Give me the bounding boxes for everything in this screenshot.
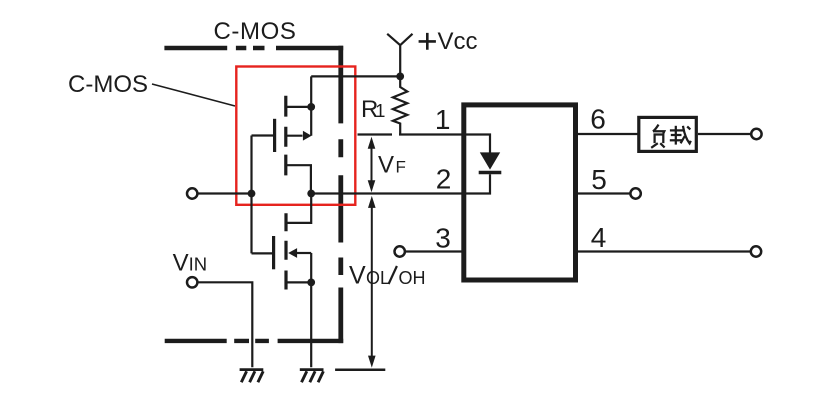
pin 5 terminal circle — [630, 188, 640, 198]
svg-text:C-MOS: C-MOS — [214, 18, 297, 45]
svg-text:C-MOS: C-MOS — [68, 71, 148, 98]
leader line from left C-MOS label to inverter — [152, 84, 235, 106]
wire pin 5 — [576, 192, 631, 194]
wire VIN terminal to ground — [198, 282, 253, 367]
Q1 source/body tie wire — [310, 76, 312, 135]
node Q1 source junction dot — [307, 103, 315, 111]
optocoupler U1 body — [464, 105, 576, 280]
input terminal circle — [187, 188, 197, 198]
wire pin 6 to load — [576, 133, 638, 135]
wire load to output terminal — [698, 133, 751, 135]
svg-text:R1: R1 — [361, 96, 385, 123]
node Vcc junction dot — [396, 73, 404, 81]
wire inverter output to pin 2 — [311, 192, 463, 194]
ground symbol (left) — [240, 370, 264, 383]
ground symbol (right) — [300, 370, 324, 383]
pin 3 terminal circle — [395, 246, 405, 256]
svg-text:4: 4 — [591, 222, 607, 253]
C-MOS package outline bottom edge (thick dashed) — [165, 339, 344, 343]
VF dimension arrow — [368, 137, 376, 193]
wire gate bus vertical — [250, 136, 252, 254]
pin 4 terminal circle — [751, 246, 761, 256]
glyph 载 (load char 2) — [670, 126, 691, 145]
C-MOS package outline top edge (thick dashed) — [164, 46, 343, 50]
transistor Q1 P-MOS — [252, 76, 312, 193]
Q1 gate bar — [273, 119, 276, 152]
Q2 gate bar — [272, 236, 275, 269]
svg-text:VF: VF — [378, 152, 406, 179]
VIN terminal circle — [187, 277, 197, 287]
photodiode D1 — [466, 135, 501, 194]
svg-text:V: V — [349, 262, 366, 290]
svg-text:1: 1 — [435, 104, 451, 135]
svg-text:3: 3 — [435, 223, 451, 254]
wire input terminal to gate junction — [198, 192, 252, 194]
node gate junction dot — [248, 190, 256, 198]
node Q2 source junction dot — [307, 279, 315, 287]
Q1 gate lead wire — [252, 134, 274, 136]
Q2 body lead with arrow — [296, 252, 311, 254]
load box (negative load 负载) — [639, 117, 697, 151]
wire pin 4 — [576, 250, 751, 252]
wire R1 to pin 1 — [399, 133, 463, 135]
node inverter output junction dot — [307, 190, 315, 198]
Q2 gate lead wire — [252, 252, 273, 254]
wire Q1 source to Vcc rail — [311, 75, 400, 77]
svg-text:VIN: VIN — [173, 249, 208, 276]
Q2 drain lead (top) — [286, 194, 311, 223]
Q2 source lead (bottom) — [286, 281, 311, 283]
Q1 drain lead (bottom) — [286, 165, 311, 193]
wire pin 3 — [405, 250, 463, 252]
svg-text:Vcc: Vcc — [438, 28, 478, 55]
label +Vcc plus sign — [419, 33, 436, 50]
transistor Q2 N-MOS — [252, 194, 312, 290]
wire Q2 source to ground — [310, 282, 312, 367]
svg-text:OL: OL — [366, 268, 390, 288]
Q1 body lead with arrow — [286, 135, 303, 137]
svg-text:6: 6 — [590, 104, 606, 135]
VOL/OH ground reference line — [335, 368, 385, 371]
Q1 channel bar segments — [284, 96, 287, 176]
svg-text:OH: OH — [399, 268, 426, 288]
VF reference stub wire — [358, 133, 393, 135]
VOL/OH dimension arrow — [368, 196, 376, 368]
Q1 source lead (top) — [286, 106, 311, 108]
svg-text:5: 5 — [591, 164, 607, 195]
output terminal circle (pin 6 side) — [751, 129, 761, 139]
C-MOS package outline right edge (thick dashed) — [338, 46, 343, 343]
svg-text:2: 2 — [436, 163, 452, 194]
Q2 source/body tie wire — [310, 253, 312, 282]
Q2 channel bar segments — [284, 213, 287, 289]
glyph 负 (load char 1) — [651, 125, 664, 148]
red highlight box around CMOS inverter — [236, 67, 355, 205]
+Vcc supply antenna symbol — [387, 34, 412, 77]
resistor R1 — [393, 76, 407, 134]
